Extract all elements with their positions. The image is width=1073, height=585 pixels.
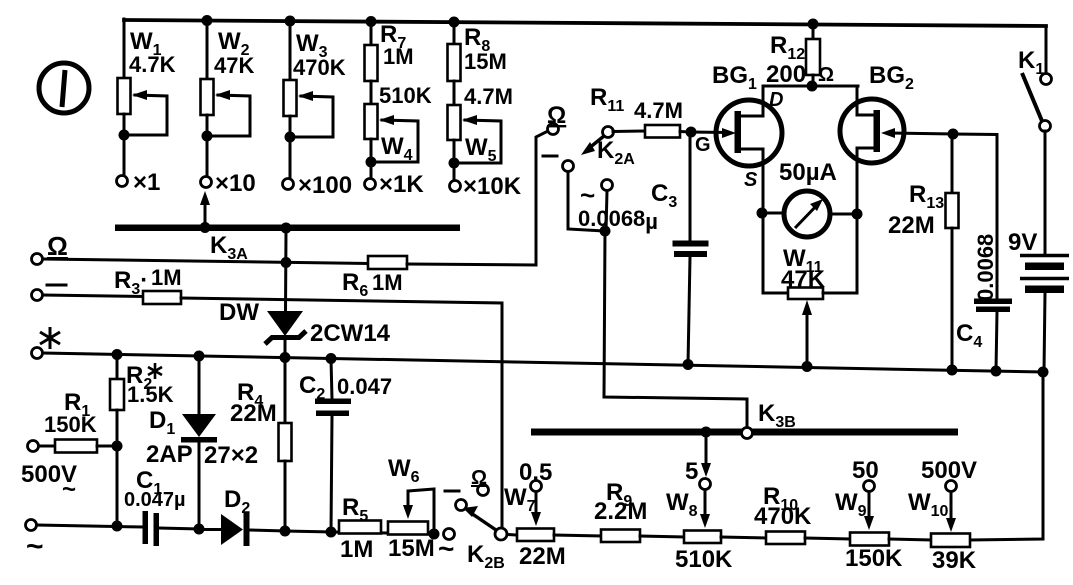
svg-text:1M: 1M [383,44,414,69]
terminal W6 output [444,529,455,540]
resistor R9 2.2M [594,479,684,542]
wire drain rail [763,85,858,88]
potentiometer W11 47K [763,213,857,365]
svg-text:R3·: R3· [114,267,148,298]
wire meter right [830,213,857,216]
resistor R10 470K [754,483,850,544]
wire K2A common to K3B wiper [604,231,747,431]
svg-text:~: ~ [26,530,44,563]
svg-text:1M: 1M [151,265,182,290]
svg-text:510K: 510K [675,546,733,573]
node D2-R4 [280,526,291,537]
node star-D1 [194,351,205,362]
svg-text:5: 5 [685,458,698,485]
svg-text:Ω: Ω [818,64,834,86]
svg-text:150K: 150K [845,545,903,572]
node BG2 gate [948,129,959,140]
K2B minus contact [445,491,467,511]
capacitor C2 0.047 [299,359,392,532]
resistor R5 1M [339,494,381,563]
svg-text:1M: 1M [372,270,403,295]
node meter left [757,208,768,219]
svg-text:22M: 22M [230,400,277,427]
svg-text:470K: 470K [754,503,812,530]
node C3 on rail [683,359,694,370]
svg-text:1.5K: 1.5K [127,382,174,407]
zener diode DW 2CW14 [219,231,391,353]
wire bottom AC rail [285,531,434,534]
svg-text:47K: 47K [214,53,254,78]
svg-text:G: G [695,134,711,156]
K2A minus contact [543,156,605,231]
K2B ohm contact [471,467,489,496]
node W11 wiper on rail [802,361,813,372]
wire AC input to C1 [37,525,143,527]
wire minus input to R3 [43,295,143,297]
potentiometer W8 510K [666,489,766,573]
resistor R2 1.5K [110,354,174,526]
terminal x1 [117,169,161,196]
node K2A common [600,226,611,237]
node C4 on rail [991,366,1002,377]
terminal AC input [26,520,44,564]
svg-text:9V: 9V [1008,229,1037,256]
svg-text:1M: 1M [340,536,373,563]
node bus-R8 [449,17,460,28]
potentiometer W7 22M [504,459,601,570]
wire meter left [762,212,784,215]
svg-text:39K: 39K [932,547,977,574]
svg-text:22M: 22M [519,543,566,570]
switch K2B [438,506,507,572]
resistor R3 1M [114,265,182,304]
node bus-R7 [366,16,377,27]
node meter right [852,209,863,220]
battery 9V [1008,131,1069,372]
terminal 5 [685,458,711,490]
svg-text:470K: 470K [293,55,346,80]
K3B wiper contact [742,428,753,439]
svg-text:15M: 15M [464,49,507,74]
svg-text:S: S [744,169,758,191]
svg-text:15M: 15M [388,535,435,562]
node D1-D2 [194,524,205,535]
resistor R1 150K [39,440,117,453]
svg-text:47K: 47K [781,266,826,293]
node R12 bottom [807,81,818,92]
node ohm-DW column [281,257,292,268]
potentiometer W1 4.7K [118,19,176,176]
node R13 on rail [947,365,958,376]
node R1-R2 [112,441,123,452]
resistor R11 4.7M [613,98,691,138]
node star-R2 [112,349,123,360]
terminal 500V input [21,389,97,503]
potentiometer W3 470K [284,21,346,179]
node star-DW [280,352,291,363]
potentiometer W2 47K [201,20,255,177]
svg-text:4.7M: 4.7M [634,98,683,123]
svg-text:×1: ×1 [133,169,160,196]
svg-text:2.2M: 2.2M [594,498,647,525]
wire battery minus to range rail [970,372,1043,540]
capacitor C3 0.0068u [578,137,709,365]
resistor R12 200ohm [766,25,834,88]
resistor R7 1M [365,21,414,104]
node K3A-DW [281,223,292,234]
node bus-W3 [285,16,296,27]
svg-text:2CW14: 2CW14 [310,320,391,347]
figure number 1 mark [39,63,89,113]
svg-text:~: ~ [62,476,76,503]
svg-text:×10: ×10 [215,170,256,197]
svg-text:×10K: ×10K [463,173,522,200]
arrow K3B tap to 5 terminal [701,435,711,477]
terminal x100 [283,172,353,199]
resistor R8 15M [448,22,507,105]
svg-text:0.047: 0.047 [337,374,392,399]
svg-text:0.047µ: 0.047µ [124,489,186,511]
potentiometer W5 4.7M [448,84,513,180]
node C2-R5 [326,527,337,538]
switch K2A [581,84,635,168]
svg-text:Ω: Ω [547,102,566,129]
wire BG2 gate with arrow [881,128,953,138]
resistor R4 22M [230,358,292,531]
meter 50uA [779,159,837,237]
transistor BG2 FET [840,62,914,214]
node AC-R2 column [112,521,123,532]
svg-text:0.0068µ: 0.0068µ [578,206,658,234]
svg-text:0.5: 0.5 [519,459,552,486]
arrow 5 to W8 wiper [700,490,710,528]
wire top supply bus [124,20,1046,26]
wire ohm input to R6 [43,259,368,264]
potentiometer W4 510K [365,83,432,179]
svg-text:510K: 510K [379,83,432,108]
terminal minus input [32,285,67,301]
node star-C2 [326,353,337,364]
svg-text:Ω: Ω [471,467,487,489]
svg-text:4.7K: 4.7K [129,52,176,77]
K2A ohm contact [547,102,566,135]
node battery minus on rail [1038,367,1049,378]
svg-text:0.0068: 0.0068 [973,234,998,301]
svg-text:~: ~ [438,533,454,564]
wire R3 to K2B pivot [181,298,502,528]
svg-text:50: 50 [852,457,879,484]
wire negative rail (star to battery minus) [43,353,1043,372]
svg-text:4.7M: 4.7M [464,84,513,109]
switch K1 [1018,26,1052,132]
terminal ohm input [32,231,68,265]
capacitor C1 0.047u [124,467,199,546]
potentiometer W10 39K [908,457,977,574]
switch wafer K3A bar [115,225,460,264]
potentiometer W9 150K [835,457,931,572]
svg-text:D: D [769,89,783,111]
svg-text:2AP: 2AP [146,441,193,468]
svg-text:DW: DW [219,299,259,326]
K2A AC contact [580,180,613,232]
svg-text:200: 200 [766,61,806,88]
node W6 wiper [429,529,440,540]
svg-text:×100: ×100 [298,172,352,199]
capacitor C4 0.0068 [953,134,1012,371]
svg-text:150K: 150K [44,412,97,437]
wire R6 to K2A ohm contact [407,131,548,265]
wire gate to BG1 with arrow [691,128,736,138]
diode D1 2AP [146,356,258,529]
terminal x10 [201,170,256,197]
terminal x10K [450,173,522,200]
arrow from K3A to x10 [200,191,210,225]
svg-text:×1K: ×1K [379,171,424,198]
node K3A-x10 [200,222,211,233]
node R12 top on bus [808,19,819,30]
resistor R6 1M [342,256,407,300]
transistor BG1 FET [712,62,783,213]
resistor R13 22M [888,134,959,370]
svg-text:27×2: 27×2 [204,442,258,469]
svg-text:50µA: 50µA [779,159,837,186]
switch wafer K3B bar [531,400,958,436]
svg-text:500V: 500V [921,457,977,484]
node G [686,127,711,157]
diode D2 [199,486,285,546]
node bus-W2 [202,15,213,26]
svg-text:22M: 22M [888,212,935,239]
potentiometer W6 15M [388,455,435,562]
svg-text:Ω: Ω [47,231,68,261]
terminal x1K [365,171,425,198]
node K3B-W8 tap [701,427,712,438]
terminal star input [32,327,61,359]
